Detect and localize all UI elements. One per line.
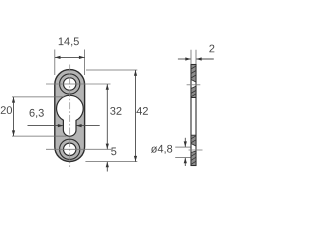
dimension o4,8 lower extension line — [175, 157, 190, 159]
arrow 6,3 left (points right at slot edge) — [58, 124, 64, 127]
dimension text 20 — [1, 106, 12, 114]
keyhole slot (circle + slot) — [57, 95, 84, 136]
bottom hole countersink ring — [60, 139, 80, 159]
arrow 2 right (points left) — [196, 57, 202, 60]
arrow 2 left (points right) — [185, 57, 191, 60]
42 top extension line — [86, 69, 137, 71]
dimension 5 lower arrow segment — [106, 162, 108, 172]
arrow 5 up (below plate pointing up) — [106, 162, 109, 168]
dimension 2 right segment — [196, 58, 213, 60]
dimension 20 line — [13, 97, 15, 136]
dimension text 5 — [111, 148, 116, 156]
dimension text 42 — [136, 107, 147, 115]
bottom hole horizontal centerline — [46, 148, 111, 150]
dimension 32 line — [106, 84, 108, 149]
dimension 20 bottom extension line — [12, 135, 67, 137]
dimension text o4,8 — [151, 145, 172, 154]
dimension 42 line — [135, 70, 137, 162]
arrow 42 down — [134, 156, 137, 162]
dimension text 32 — [110, 107, 121, 115]
front view: oval escutcheon plate body — [55, 70, 85, 162]
dimension 14,5 left extension line — [54, 50, 56, 76]
arrow 20 down — [12, 130, 15, 136]
arrow 6,3 right (points left at slot edge) — [76, 124, 82, 127]
side view plate outline — [191, 65, 196, 166]
dimension 14,5 right extension line — [84, 50, 86, 76]
dimension o4,8 lower arrow (points up) — [184, 158, 186, 166]
top hole bore — [63, 78, 75, 90]
top hole countersink ring — [60, 74, 80, 94]
side view left face extension line — [190, 50, 192, 65]
dimension o4,8 upper arrow (points down) — [184, 138, 186, 147]
42/5 bottom extension line — [85, 161, 137, 163]
dimension 20 top extension line — [12, 96, 65, 98]
side view right face extension line — [195, 50, 197, 65]
dimension 6,3 left segment — [28, 125, 63, 127]
side view bottom hole centerline — [189, 149, 203, 151]
dimension o4,8 upper extension line — [175, 146, 190, 148]
dimension text 14,5 — [59, 38, 79, 47]
dimension 6,3 right segment — [77, 125, 100, 127]
side view hatched section block 2 (top hole to keyhole) — [191, 86, 196, 97]
arrow 14,5 right — [79, 56, 85, 59]
side view hatched section block 3 (keyhole to bottom hole) — [191, 135, 196, 146]
vertical centerline of front view — [69, 65, 71, 168]
top hole horizontal centerline — [46, 83, 111, 85]
dimension 2 left segment — [178, 58, 191, 60]
side view top hole centerline — [187, 84, 201, 86]
arrow 20 up — [12, 97, 15, 103]
side view hatched section block 1 (above top hole) — [191, 65, 196, 83]
side view hatched section block 4 (below bottom hole) — [191, 151, 196, 166]
arrow 32 up — [106, 84, 109, 90]
dimension text 2 — [209, 45, 214, 53]
arrow 42 up — [134, 70, 137, 76]
arrow 32 down — [106, 144, 109, 150]
bottom hole bore — [63, 143, 75, 155]
dimension text 6,3 — [30, 109, 44, 118]
dimension 14,5 line — [55, 56, 85, 58]
arrow 14,5 left — [55, 56, 61, 59]
